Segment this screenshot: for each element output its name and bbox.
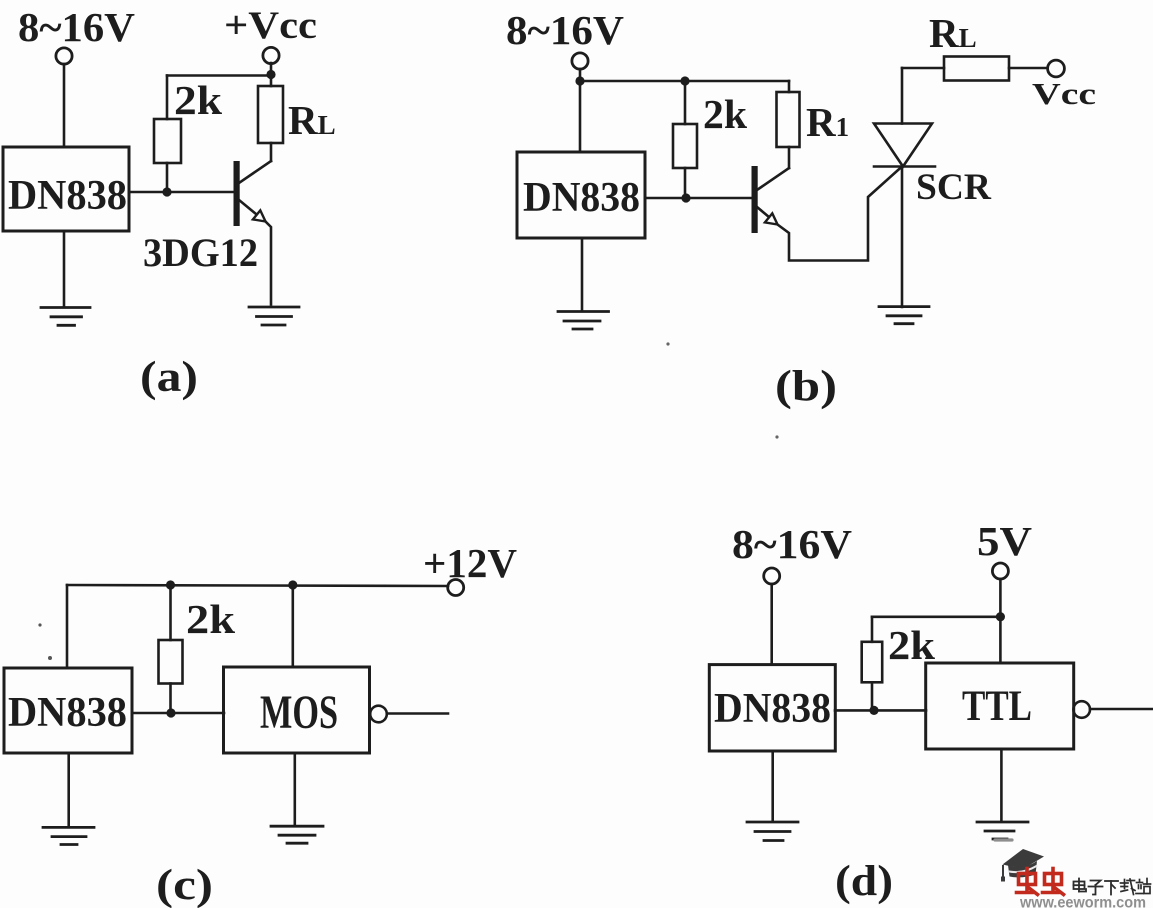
- node Vcc junction (a): [266, 70, 275, 79]
- resistor 2k (d): [862, 617, 883, 711]
- wire DN838 output to base (b): [645, 197, 753, 200]
- svg-text:2k: 2k: [186, 596, 235, 642]
- ground under MOS (c): [271, 826, 323, 843]
- svg-text:SCR: SCR: [916, 167, 992, 208]
- svg-text:(c): (c): [156, 862, 213, 908]
- inverter bubble TTL (d): [1073, 701, 1090, 718]
- node base junction (b): [681, 193, 690, 202]
- ground under TTL (d): [977, 822, 1028, 839]
- wire rail to MOS top (c): [291, 585, 294, 667]
- terminal 5V (d): [992, 563, 1008, 579]
- svg-text:www.eeworm.com: www.eeworm.com: [1019, 895, 1146, 908]
- wire Vcc terminal to RL (a): [270, 63, 273, 86]
- watermark text xia: [1105, 881, 1118, 895]
- stray scan speck: [48, 656, 52, 660]
- terminal 8~16V (b): [572, 53, 588, 69]
- resistor RL (b): [944, 57, 1009, 81]
- wire 2k top to Vcc node (a): [167, 74, 271, 77]
- wire DN838 output to TTL (d): [835, 709, 926, 712]
- wire SCR anode to RL (b): [902, 67, 944, 70]
- wire terminal to DN838 (a): [63, 64, 66, 147]
- terminal 8~16V (d): [764, 568, 780, 584]
- node junction base (a): [162, 187, 171, 196]
- wire 5V terminal to TTL (d): [999, 579, 1002, 663]
- resistor 2k (a): [154, 76, 181, 193]
- wire MOS output (c): [387, 712, 448, 715]
- wire rail to DN838 (c): [66, 585, 69, 668]
- stray scan speck: [38, 623, 41, 626]
- resistor 2k (c): [159, 585, 183, 713]
- svg-text:+Vcc: +Vcc: [224, 4, 317, 47]
- wire DN838 to ground (b): [581, 238, 584, 311]
- watermark chongchong character 2: [1043, 869, 1064, 895]
- wire emitter to SCR gate (b): [778, 167, 903, 261]
- resistor 2k (b): [673, 81, 697, 198]
- wire DN838 to ground (c): [67, 753, 70, 827]
- wire supply rail (b): [580, 80, 789, 83]
- svg-text:RL: RL: [288, 97, 336, 143]
- svg-text:MOS: MOS: [260, 686, 338, 739]
- svg-text:(b): (b): [775, 363, 837, 410]
- node 5V junction (d): [996, 612, 1005, 621]
- node rail to 2k (c): [166, 580, 175, 589]
- resistor R1 (b): [777, 81, 800, 168]
- watermark text zhan: [1136, 879, 1151, 894]
- svg-text:2k: 2k: [888, 622, 935, 668]
- node output junction (c): [166, 708, 175, 717]
- ground under DN838 (d): [747, 822, 798, 841]
- svg-text:8~16V: 8~16V: [18, 4, 135, 50]
- watermark text zi: [1089, 881, 1103, 895]
- svg-text:5V: 5V: [977, 518, 1032, 564]
- wire MOS to ground (c): [293, 753, 296, 826]
- svg-text:8~16V: 8~16V: [732, 521, 852, 567]
- svg-text:(d): (d): [835, 858, 893, 905]
- wire DN838 output to base (a): [129, 191, 235, 194]
- svg-text:RL: RL: [929, 10, 977, 56]
- watermark chongchong character 1: [1017, 869, 1038, 895]
- svg-text:DN838: DN838: [8, 690, 127, 736]
- inverter bubble MOS (c): [370, 706, 387, 723]
- gate TTL (d): [926, 663, 1074, 749]
- IC DN838 (b): [517, 152, 645, 238]
- ground under emitter (a): [249, 307, 299, 325]
- terminal +12V (c): [448, 580, 464, 596]
- ground under DN838 (a): [41, 308, 90, 326]
- node output junction (d): [869, 706, 878, 715]
- svg-text:2k: 2k: [703, 91, 747, 137]
- svg-text:DN838: DN838: [8, 173, 127, 219]
- transistor Q2 (b): [752, 166, 790, 233]
- IC DN838 (d): [709, 665, 835, 751]
- wire RL to Vcc terminal (b): [1009, 67, 1047, 70]
- SCR thyristor (b): [874, 68, 935, 307]
- transistor 3DG12 Q1 (a): [234, 161, 272, 305]
- node rail to 2k (b): [680, 76, 689, 85]
- watermark text zai: [1121, 879, 1136, 895]
- watermark graduation cap: [1001, 849, 1044, 882]
- gate MOS (c): [224, 667, 370, 753]
- svg-text:3DG12: 3DG12: [143, 230, 258, 275]
- node supply junction (b): [575, 76, 584, 85]
- svg-text:8~16V: 8~16V: [506, 7, 624, 53]
- wire terminal to DN838 (b): [579, 69, 582, 152]
- svg-text:(a): (a): [140, 354, 198, 401]
- terminal Vcc (b): [1048, 60, 1065, 77]
- ground under SCR (b): [879, 307, 929, 324]
- svg-text:+12V: +12V: [423, 540, 517, 586]
- svg-text:DN838: DN838: [523, 175, 640, 221]
- IC DN838 (a): [3, 147, 129, 231]
- terminal 8~16V (a): [56, 48, 72, 64]
- wire 2k to 5V rail (d): [872, 615, 1000, 618]
- wire DN838 to ground (d): [771, 751, 774, 821]
- wire supply rail (c): [67, 585, 448, 586]
- wire DN838 output to MOS (c): [132, 712, 224, 715]
- resistor RL (a): [258, 86, 283, 161]
- svg-text:R1: R1: [806, 99, 849, 145]
- watermark text dian: [1074, 879, 1087, 892]
- svg-text:DN838: DN838: [714, 686, 831, 732]
- stray scan speck: [666, 342, 669, 345]
- watermark smudge: [995, 838, 1012, 841]
- svg-text:Vcc: Vcc: [1032, 76, 1096, 111]
- wire terminal to DN838 (d): [770, 584, 773, 665]
- wire DN838 to ground (a): [63, 231, 66, 307]
- IC DN838 (c): [4, 668, 132, 753]
- wire TTL output (d): [1090, 708, 1153, 711]
- svg-text:TTL: TTL: [962, 683, 1032, 730]
- svg-text:2k: 2k: [174, 77, 222, 123]
- ground under DN838 (c): [43, 827, 94, 844]
- ground under DN838 (b): [558, 312, 609, 330]
- stray scan speck: [775, 435, 778, 438]
- wire TTL to ground (d): [1000, 749, 1003, 821]
- terminal +Vcc (a): [263, 47, 279, 63]
- node rail to MOS (c): [288, 580, 297, 589]
